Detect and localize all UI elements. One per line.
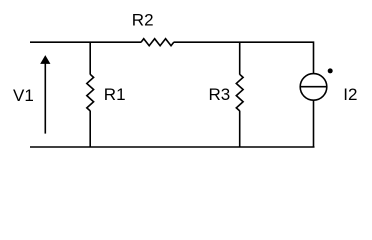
wire: R3 branch lower (239, 111, 241, 147)
current source I2 (300, 74, 327, 101)
voltage source V1 arrow shaft (44, 63, 46, 134)
svg-text:I2: I2 (343, 85, 357, 104)
svg-text:V1: V1 (13, 86, 34, 105)
wire: top left segment (30, 41, 141, 43)
wire: R1 branch lower (89, 111, 91, 147)
resistor R3 (236, 74, 243, 111)
voltage source V1 arrowhead (41, 56, 50, 63)
svg-text:R3: R3 (209, 85, 231, 104)
svg-text:R2: R2 (132, 11, 154, 30)
wire: bottom segment (30, 146, 315, 148)
polarity dot (328, 68, 333, 73)
wire: R1 branch upper (89, 42, 91, 74)
wire: R3 branch upper (239, 42, 241, 74)
wire: right lower segment (313, 100, 315, 147)
wire: top right segment with corner (174, 42, 314, 73)
resistor R2 (141, 39, 174, 46)
svg-text:R1: R1 (104, 85, 126, 104)
resistor R1 (87, 74, 94, 111)
